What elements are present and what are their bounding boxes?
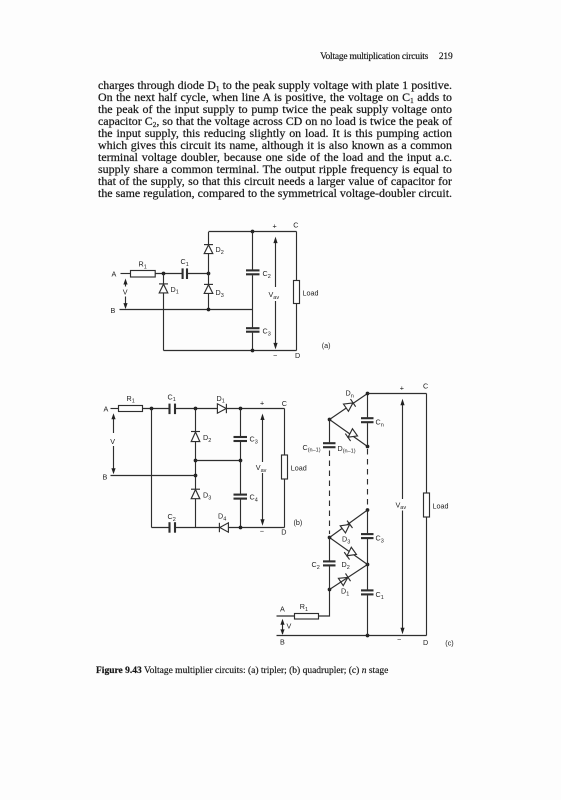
svg-text:R1: R1: [127, 394, 135, 405]
svg-text:(a): (a): [322, 341, 331, 350]
bottom rail: [152, 527, 170, 529]
wire node down to D3: [208, 274, 210, 285]
diode D3: [330, 510, 368, 538]
node dot (D1 anode): [328, 588, 332, 592]
svg-text:D3: D3: [216, 288, 224, 299]
resistor R1: [131, 271, 156, 278]
svg-text:−: −: [273, 351, 277, 360]
svg-text:D1: D1: [341, 587, 349, 598]
svg-text:D3: D3: [203, 491, 211, 502]
svg-text:C3: C3: [263, 327, 271, 338]
svg-text:Vav: Vav: [256, 463, 267, 474]
svg-text:C: C: [423, 382, 428, 391]
capacitor C1: [168, 404, 170, 415]
svg-text:C1: C1: [181, 257, 189, 268]
diode Dn: [330, 394, 368, 420]
wire R1 to junction: [143, 408, 170, 410]
junction dot (C4 bottom): [239, 526, 243, 530]
node dot (C1/C3 mid): [366, 563, 370, 567]
body paragraph: [98, 79, 452, 199]
node dot (Cn bottom): [366, 445, 370, 449]
svg-text:−: −: [397, 635, 401, 644]
top rail: [368, 393, 427, 395]
capacitor C3: [240, 409, 242, 437]
svg-text:D2: D2: [203, 433, 211, 444]
Vav arrow: [262, 419, 264, 521]
load resistor: [296, 232, 298, 281]
svg-text:C3: C3: [250, 435, 258, 446]
svg-text:Load: Load: [433, 502, 449, 511]
diode D3: [204, 283, 213, 285]
svg-text:R1: R1: [300, 602, 308, 613]
bottom rail: [164, 350, 297, 352]
capacitor C3: [252, 310, 254, 328]
svg-text:A: A: [280, 605, 285, 614]
diode D2: [330, 538, 368, 565]
wire D1 down to bottom rail: [163, 293, 165, 351]
svg-text:D: D: [281, 528, 286, 537]
svg-text:B: B: [111, 306, 116, 315]
svg-text:Load: Load: [291, 464, 307, 473]
svg-text:+: +: [273, 222, 277, 231]
wire C1 to node D2/D3: [188, 273, 209, 275]
junction dot (C1 bottom): [366, 634, 370, 638]
svg-text:C: C: [282, 399, 287, 408]
svg-text:D(n–1): D(n–1): [338, 444, 356, 455]
running head: [0, 52, 453, 62]
wire A to R1: [277, 615, 295, 617]
diode D4: [218, 523, 220, 532]
svg-text:A: A: [104, 405, 109, 414]
junction dot (link right): [239, 459, 243, 463]
svg-text:D1: D1: [171, 285, 179, 296]
diode D2: [204, 245, 213, 254]
capacitor C1: [182, 268, 184, 279]
wire C2 to D4: [176, 527, 219, 529]
diode Dn-1: [330, 420, 368, 447]
V source arrow: [125, 284, 127, 305]
junction dot (D2 branch): [194, 407, 198, 411]
svg-text:+: +: [260, 399, 264, 408]
svg-text:Dn: Dn: [346, 389, 354, 400]
capacitor C2: [252, 232, 254, 270]
svg-text:D3: D3: [342, 535, 350, 546]
V source arrow: [113, 418, 115, 469]
Vav arrow: [275, 242, 277, 344]
wire R1 to left column: [319, 590, 330, 617]
node dot (C3 top): [366, 508, 370, 512]
capacitor C3: [367, 510, 369, 533]
dashed continuation right: [367, 449, 369, 507]
capacitor Cn: [367, 394, 369, 418]
bottom rail B to D: [277, 635, 427, 637]
wire D4 to bottom corner: [228, 527, 284, 529]
svg-text:B: B: [103, 472, 108, 481]
D2 vertical branch: [195, 409, 197, 432]
svg-text:D1: D1: [217, 394, 225, 405]
junction dot (D2/D3 node): [207, 272, 211, 276]
svg-text:D2: D2: [342, 560, 350, 571]
load resistor: [284, 409, 286, 456]
junction dot (R1/D1): [162, 272, 166, 276]
capacitor C2: [168, 522, 170, 533]
capacitor C1: [367, 565, 369, 590]
wire R1 to junction: [155, 273, 182, 275]
svg-text:D: D: [295, 351, 300, 360]
wire B line: [111, 475, 196, 477]
svg-text:+: +: [400, 383, 404, 392]
top rail: [209, 231, 297, 233]
middle link wire: [196, 460, 241, 462]
wire B line: [120, 309, 253, 311]
svg-text:C1: C1: [376, 590, 384, 601]
wire A to R1: [111, 408, 119, 410]
svg-text:A: A: [112, 270, 117, 279]
svg-text:C2: C2: [312, 560, 320, 571]
svg-text:C2: C2: [168, 512, 176, 523]
diode D1: [217, 404, 226, 413]
svg-text:V: V: [110, 437, 115, 446]
svg-text:Cn: Cn: [376, 418, 384, 429]
svg-text:C: C: [293, 221, 298, 230]
Vav arrow: [402, 404, 404, 629]
svg-text:D: D: [423, 638, 428, 647]
junction dot (C2 top): [251, 230, 255, 234]
junction dot (C3 top): [239, 407, 243, 411]
svg-text:D4: D4: [218, 512, 226, 523]
svg-text:D2: D2: [216, 245, 224, 256]
capacitor C2: [329, 538, 331, 561]
junction dot (C3 bottom): [251, 349, 255, 353]
svg-text:C2: C2: [263, 269, 271, 280]
svg-text:V: V: [287, 622, 292, 631]
svg-text:C(n–1): C(n–1): [303, 443, 321, 454]
junction dot (top rail): [366, 392, 370, 396]
junction dot (D3 on B line): [207, 308, 211, 312]
dashed continuation left: [329, 451, 331, 535]
svg-text:(b): (b): [294, 518, 303, 527]
junction dot (B on D branch): [194, 474, 198, 478]
svg-text:B: B: [280, 638, 285, 647]
load resistor: [426, 394, 428, 494]
diode D1: [163, 274, 165, 284]
svg-text:Vav: Vav: [396, 500, 407, 511]
svg-text:(c): (c): [445, 638, 453, 647]
diode D1: [338, 573, 350, 585]
wire D1 to top right corner: [226, 408, 284, 410]
capacitor Cn-1: [329, 420, 331, 443]
svg-text:−: −: [260, 527, 264, 536]
wire node up to D2: [208, 254, 210, 274]
diode D3: [191, 488, 200, 490]
svg-text:Load: Load: [303, 289, 319, 298]
V source arrow: [282, 622, 284, 634]
node dot (Cn-1 top): [328, 418, 332, 422]
wire A to R1: [121, 273, 131, 275]
svg-text:C1: C1: [168, 392, 176, 403]
svg-text:V: V: [123, 288, 128, 297]
svg-text:Vav: Vav: [269, 290, 280, 301]
svg-text:R1: R1: [139, 260, 147, 271]
resistor R1: [119, 406, 143, 412]
diode D2: [191, 431, 200, 433]
resistor R1: [295, 614, 319, 620]
junction dot (left branch): [150, 407, 154, 411]
wire C1 to D2 node: [176, 408, 217, 410]
svg-text:C3: C3: [376, 534, 384, 545]
capacitor C4: [240, 461, 242, 494]
left vertical wire down: [151, 409, 153, 528]
node dot (C2 top / D3 anode): [328, 536, 332, 540]
figure caption: [96, 666, 388, 676]
junction dot (link left): [194, 459, 198, 463]
svg-text:C4: C4: [250, 493, 258, 504]
